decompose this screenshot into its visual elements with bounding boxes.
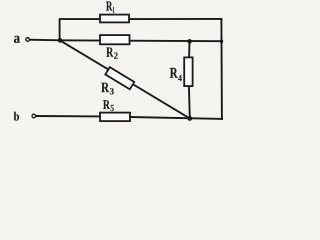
node b label <box>14 112 19 121</box>
junction at middle rail right end <box>220 39 224 43</box>
label R2 <box>106 48 117 59</box>
resistor R4 (vertical) <box>184 57 192 86</box>
label R1 <box>106 1 114 13</box>
wire: diagonal from node a junction to bottom junction <box>60 40 190 118</box>
node a label <box>14 36 20 43</box>
wire: R4 bottom connection <box>188 86 191 118</box>
wire: middle rail from terminal a to right vertical <box>30 40 222 42</box>
terminal b <box>32 114 36 118</box>
junction at R4 top <box>187 39 192 44</box>
wire: top rail from left corner to right corner <box>60 19 222 40</box>
resistor R3 (rotated on diagonal) <box>105 67 134 89</box>
label R3 <box>101 83 114 95</box>
junction at R4 bottom <box>187 116 192 121</box>
terminal a <box>26 38 30 42</box>
label R4 <box>170 68 182 81</box>
wire: R4 top connection <box>188 41 190 57</box>
resistor R2 <box>100 35 130 44</box>
wire: right vertical side <box>220 19 223 119</box>
label R5 <box>103 100 114 111</box>
resistor R5 <box>100 113 130 122</box>
resistor R1 <box>100 15 129 23</box>
wire: bottom rail from terminal b to bottom-right corner <box>36 116 222 119</box>
junction at node a <box>58 38 63 43</box>
